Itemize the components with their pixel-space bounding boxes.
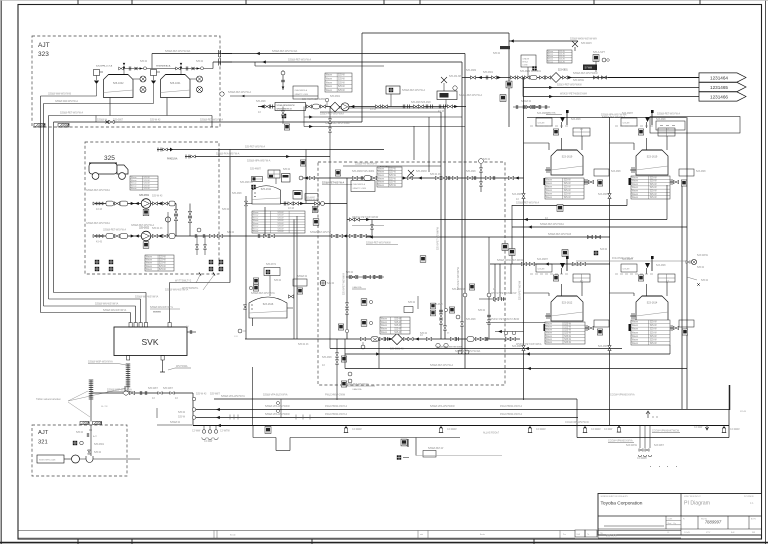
svg-text:525&8-VPA-BLSYWYA: 525&8-VPA-BLSYWYA: [263, 394, 288, 397]
svg-text:525-W: 525-W: [564, 326, 572, 328]
svg-text:525-W: 525-W: [159, 260, 167, 262]
svg-text:Wsvw: Wsvw: [378, 175, 384, 177]
svg-text:1:1: 1:1: [750, 501, 754, 505]
svg-text:325: 325: [104, 155, 115, 162]
svg-text:AJT: AJT: [93, 435, 98, 438]
svg-text:LOEM: LOEM: [523, 65, 528, 67]
svg-text:525-W: 525-W: [740, 411, 746, 413]
svg-text:525-W: 525-W: [650, 197, 658, 199]
svg-text:VWUY WUW WPLIT: VWUY WUW WPLIT: [684, 496, 701, 498]
svg-text:CJ-WW: CJ-WW: [204, 440, 213, 443]
svg-text:CJ-WW2: CJ-WW2: [536, 428, 546, 431]
svg-text:525-W: 525-W: [159, 256, 167, 258]
svg-text:525-W: 525-W: [277, 231, 283, 233]
svg-text:525&8-PET-WSYWKW: 525&8-PET-WSYWKW: [366, 242, 391, 245]
svg-text:525-W: 525-W: [650, 184, 658, 186]
svg-text:GRAVITY LOEM: GRAVITY LOEM: [353, 187, 367, 190]
svg-text:525-W: 525-W: [76, 431, 84, 434]
svg-text:525&Y-PET-WSYWKA: 525&Y-PET-WSYWKA: [320, 113, 344, 116]
svg-text:Wsvw: Wsvw: [253, 217, 259, 219]
svg-text:WWBRUKSVATTUN DRWLA WTL: WWBRUKSVATTUN DRWLA WTL: [601, 495, 629, 498]
svg-text:Wsvw: Wsvw: [548, 61, 554, 63]
svg-text:525-W: 525-W: [564, 187, 572, 189]
svg-text:Wsvw: Wsvw: [546, 183, 552, 185]
svg-text:FWLCHWW-CWYL2: FWLCHWW-CWYL2: [500, 413, 523, 416]
svg-text:KKKhTSPS web8: KKKhTSPS web8: [39, 460, 56, 462]
svg-text:525-1002: 525-1002: [113, 82, 124, 85]
svg-text:WSKSY-PET-WSKSYWA: WSKSY-PET-WSKSYWA: [560, 93, 587, 96]
svg-text:525-W 43: 525-W 43: [152, 227, 163, 230]
svg-text:523-4M8: 523-4M8: [656, 264, 666, 267]
svg-text:GRAVITY LOEM: GRAVITY LOEM: [295, 93, 309, 96]
svg-text:325&8-PET-WSYW-A: 325&8-PET-WSYW-A: [103, 229, 126, 232]
svg-text:525-4M8: 525-4M8: [466, 170, 476, 173]
svg-text:SYWM: SYWM: [585, 67, 592, 70]
svg-text:Wsvw: Wsvw: [546, 326, 552, 328]
svg-text:BvW: BvW: [731, 532, 735, 534]
svg-text:525-W: 525-W: [178, 411, 186, 414]
svg-text:Wsvw: Wsvw: [378, 185, 384, 187]
svg-text:525-W: 525-W: [483, 158, 491, 161]
svg-text:525&8-NPA-WSYW-A: 525&8-NPA-WSYW-A: [247, 160, 271, 163]
svg-text:525&8-PET-WSYW-A: 525&8-PET-WSYW-A: [288, 59, 311, 62]
svg-text:525&8-PET-WSYW-WA: 525&8-PET-WSYW-WA: [165, 50, 191, 53]
svg-text:525-W: 525-W: [94, 451, 102, 454]
svg-text:525-W: 525-W: [394, 318, 402, 320]
svg-text:525-W: 525-W: [338, 90, 346, 92]
svg-text:525-W: 525-W: [564, 336, 572, 338]
svg-text:CJ-WW2: CJ-WW2: [447, 428, 457, 431]
svg-text:525-W8T: 525-W8T: [148, 387, 158, 390]
svg-text:43 43: 43 43: [438, 110, 445, 113]
svg-text:TW: TW: [600, 533, 603, 535]
svg-text:525-8-PET-WSYWYW: 525-8-PET-WSYWYW: [458, 266, 460, 290]
svg-text:CJ-WW: CJ-WW: [192, 430, 201, 433]
svg-text:FOLCHWA-CWK-W: FOLCHWA-CWK-W: [612, 257, 634, 260]
svg-text:525-0801: 525-0801: [94, 443, 105, 446]
svg-text:325&8-PET-WSYWKA: 325&8-PET-WSYWKA: [86, 222, 110, 225]
svg-text:1231466: 1231466: [710, 94, 728, 99]
svg-text:SL-TN: SL-TN: [101, 406, 108, 408]
svg-text:525-W: 525-W: [394, 329, 402, 331]
svg-text:525-W: 525-W: [140, 60, 148, 63]
svg-text:525&8-WN-WSYWYA: 525&8-WN-WSYWYA: [135, 296, 159, 299]
svg-text:PI Diagram: PI Diagram: [684, 501, 710, 507]
svg-text:321: 321: [38, 440, 48, 446]
svg-text:525&8-WN-WSYWYA: 525&8-WN-WSYWYA: [103, 309, 127, 312]
svg-text:523-4M8T: 523-4M8T: [512, 193, 523, 196]
svg-text:Bevde: Bevde: [230, 535, 237, 537]
svg-text:525-W: 525-W: [394, 325, 402, 327]
svg-text:523-4M8: 523-4M8: [598, 193, 608, 196]
svg-text:525-8-PET-WSYWYA: 525-8-PET-WSYWYA: [343, 272, 346, 295]
svg-text:WSKSY-PET-WSYWKW: WSKSY-PET-WSYWKW: [352, 216, 379, 219]
svg-text:Wsvw: Wsvw: [632, 187, 638, 189]
svg-text:RvW: RvW: [577, 534, 581, 536]
svg-text:FWLCHWW-CWW: FWLCHWW-CWW: [325, 394, 346, 397]
svg-text:WSKSY-PET-WSYWKA: WSKSY-PET-WSYWKA: [516, 343, 542, 346]
svg-text:WSKSY-PET-WSKSY-BKW: WSKSY-PET-WSKSY-BKW: [490, 318, 520, 321]
svg-text:525-W: 525-W: [650, 191, 658, 193]
svg-text:BUTV: BUTV: [751, 519, 757, 521]
svg-text:Wsvw: Wsvw: [632, 191, 638, 193]
svg-text:525-W: 525-W: [338, 79, 346, 81]
svg-text:525-W: 525-W: [564, 323, 572, 325]
svg-text:525&8-PET-WSYW-A: 525&8-PET-WSYW-A: [516, 202, 539, 205]
svg-text:525&8-WN-WSYWYA: 525&8-WN-WSYWYA: [95, 303, 119, 306]
svg-text:1231464: 1231464: [710, 75, 728, 80]
svg-text:525-W: 525-W: [277, 228, 283, 230]
svg-text:Wsvw: Wsvw: [632, 322, 638, 324]
svg-text:525-W: 525-W: [408, 301, 416, 304]
svg-text:CJ-WW: CJ-WW: [694, 426, 703, 429]
svg-text:WSYWWA: WSYWWA: [176, 365, 188, 368]
svg-text:525-W: 525-W: [701, 279, 709, 282]
svg-text:525&Y-PET-WSYWKW: 525&Y-PET-WSYWKW: [557, 84, 582, 87]
svg-text:525&8-PET-WSYWKW: 525&8-PET-WSYWKW: [573, 72, 598, 75]
svg-text:525-NPM-LCT-B: 525-NPM-LCT-B: [96, 65, 113, 67]
svg-text:Wsvw: Wsvw: [632, 332, 638, 334]
svg-text:525-W: 525-W: [159, 266, 167, 268]
svg-text:525&8-PET-WSYW-WA: 525&8-PET-WSYW-WA: [272, 50, 298, 53]
svg-text:525-4M-NP3: 525-4M-NP3: [449, 75, 463, 78]
svg-text:525&8-VPA-WSYWKW: 525&8-VPA-WSYWKW: [430, 405, 455, 408]
svg-text:525-4M8 525-4M8: 525-4M8 525-4M8: [411, 101, 431, 104]
svg-text:325&8-PET-WSYWKA: 325&8-PET-WSYWKA: [86, 189, 110, 192]
svg-text:525-W8T: 525-W8T: [163, 387, 173, 390]
svg-text:Wsvw: Wsvw: [146, 256, 152, 258]
svg-text:FWLCHWW-CWYL2: FWLCHWW-CWYL2: [325, 405, 348, 408]
svg-text:525-W: 525-W: [277, 217, 283, 219]
svg-text:523-1619: 523-1619: [647, 156, 658, 159]
svg-text:Wsvw: Wsvw: [632, 325, 638, 327]
svg-text:525-4M8: 525-4M8: [466, 318, 476, 321]
svg-text:Wsvw: Wsvw: [131, 183, 137, 185]
svg-text:525-4MM 523-0801: 525-4MM 523-0801: [520, 70, 542, 73]
svg-text:CCGW-WN-WSYW-W: CCGW-WN-WSYW-W: [565, 421, 590, 424]
svg-text:Wsvw: Wsvw: [253, 231, 259, 233]
svg-text:AJT: AJT: [38, 42, 50, 49]
svg-text:CCGW-VPW-BSYWYA: CCGW-VPW-BSYWYA: [608, 440, 633, 443]
svg-text:Wsvw: Wsvw: [546, 342, 552, 344]
svg-text:525&8-PET-WSYWKA: 525&8-PET-WSYWKA: [540, 223, 564, 226]
svg-text:Wsvw: Wsvw: [131, 177, 137, 179]
svg-text:525-1001: 525-1001: [170, 82, 181, 85]
svg-text:525-W: 525-W: [650, 325, 658, 327]
svg-text:525&8-PET-WSYW-A: 525&8-PET-WSYW-A: [200, 118, 223, 121]
svg-text:525-W: 525-W: [564, 330, 572, 332]
svg-text:523-0801: 523-0801: [558, 70, 568, 72]
svg-text:Wsvw: Wsvw: [381, 325, 387, 327]
svg-text:Wsvw: Wsvw: [326, 86, 332, 88]
svg-text:525-W: 525-W: [283, 168, 291, 171]
svg-text:43 43: 43 43: [96, 208, 103, 211]
svg-text:Wsvw: Wsvw: [632, 181, 638, 183]
svg-text:Wsvw: Wsvw: [546, 197, 552, 199]
svg-text:525&8-WKW-WSYW-WA: 525&8-WKW-WSYW-WA: [570, 38, 597, 41]
svg-text:525-0871: 525-0871: [266, 263, 277, 266]
svg-text:525-W: 525-W: [564, 194, 572, 196]
svg-text:SVK: SVK: [141, 337, 158, 347]
svg-text:Wsvw: Wsvw: [326, 75, 332, 77]
svg-text:wde: wde: [420, 534, 423, 536]
svg-text:525-W: 525-W: [650, 343, 658, 345]
svg-text:Pve: Pve: [563, 534, 566, 536]
svg-text:Wsvw: Wsvw: [632, 177, 638, 179]
svg-text:525-W: 525-W: [277, 223, 283, 225]
svg-text:Wsvw: Wsvw: [253, 212, 259, 214]
svg-text:2004-8-8: 2004-8-8: [606, 534, 617, 538]
svg-text:525-0801: 525-0801: [483, 71, 494, 74]
svg-text:Wsvw: Wsvw: [131, 185, 137, 187]
svg-text:525&8-PET-WSYW: 525&8-PET-WSYW: [310, 231, 331, 234]
svg-text:523-1612: 523-1612: [562, 302, 573, 305]
svg-text:525-PET-WSYW-A: 525-PET-WSYW-A: [245, 146, 266, 149]
svg-text:Wsvw: Wsvw: [146, 266, 152, 268]
svg-text:CHALIWERK-A: CHALIWERK-A: [295, 89, 308, 92]
svg-text:Tähän valueist arteiden: Tähän valueist arteiden: [36, 398, 62, 401]
svg-text:525-W: 525-W: [389, 172, 397, 174]
svg-text:523-4M: 523-4M: [538, 123, 545, 125]
svg-text:525-W: 525-W: [389, 185, 397, 187]
svg-text:525&8-PET-WSYW-A: 525&8-PET-WSYW-A: [459, 94, 482, 97]
svg-text:CHALIW: CHALIW: [523, 58, 530, 61]
svg-text:525-W: 525-W: [159, 269, 167, 271]
svg-text:525-W: 525-W: [650, 336, 658, 338]
svg-text:525&8-PN-WSYW-A: 525&8-PN-WSYW-A: [355, 163, 377, 166]
svg-text:525&8-PET-WSYW-A: 525&8-PET-WSYW-A: [228, 91, 251, 94]
svg-text:525-4M8: 525-4M8: [322, 356, 332, 359]
svg-text:525-W: 525-W: [559, 61, 565, 63]
svg-text:Wsvw: Wsvw: [632, 336, 638, 338]
svg-text:Wsvw: Wsvw: [253, 223, 259, 225]
svg-text:525&8-WKW-PET-WKW: 525&8-WKW-PET-WKW: [497, 259, 524, 262]
svg-text:525&8-PET-WSYW-B: 525&8-PET-WSYW-B: [548, 233, 571, 236]
svg-text:ERK-A: ERK-A: [523, 61, 529, 64]
svg-text:525-W 43: 525-W 43: [430, 173, 441, 176]
svg-text:Wsvw: Wsvw: [546, 333, 552, 335]
svg-text:525-W: 525-W: [389, 182, 397, 184]
svg-text:CJ-WW8: CJ-WW8: [637, 457, 647, 460]
svg-text:525-W: 525-W: [564, 190, 572, 192]
svg-text:Wsvw: Wsvw: [632, 343, 638, 345]
svg-text:525-W: 525-W: [564, 339, 572, 341]
svg-text:525-W: 525-W: [338, 75, 346, 77]
svg-text:525-W: 525-W: [227, 231, 235, 234]
svg-text:Wsvw: Wsvw: [546, 336, 552, 338]
svg-text:O/y: O/y: [673, 523, 676, 525]
svg-text:525-4M8T: 525-4M8T: [306, 197, 316, 199]
svg-text:525-W: 525-W: [650, 187, 658, 189]
svg-text:CLOvW: CLOvW: [684, 532, 690, 534]
svg-text:525-W: 525-W: [394, 322, 402, 324]
svg-text:525&8-WN-WSYWYL: 525&8-WN-WSYWYL: [150, 306, 174, 309]
svg-text:525-4M8T: 525-4M8T: [250, 168, 261, 171]
svg-text:525&8-PKA-WSYW-A: 525&8-PKA-WSYW-A: [216, 153, 240, 156]
svg-text:525-W: 525-W: [159, 263, 167, 265]
svg-text:525-W: 525-W: [564, 183, 572, 185]
svg-text:523-WKW: 523-WKW: [626, 444, 638, 447]
svg-text:525&8-PET-WSYW-A: 525&8-PET-WSYW-A: [657, 113, 680, 116]
svg-text:525-WW3: 525-WW3: [581, 42, 592, 45]
svg-text:525-0801: 525-0801: [330, 95, 341, 98]
svg-text:525-4MM: 525-4MM: [466, 69, 476, 72]
svg-text:Wsvw: Wsvw: [378, 182, 384, 184]
svg-text:43 43: 43 43: [96, 241, 103, 244]
svg-text:Wsvw: Wsvw: [326, 90, 332, 92]
svg-text:523-4M8: 523-4M8: [656, 118, 666, 121]
svg-text:Tlv: Tlv: [587, 534, 589, 536]
svg-text:FWLCHWW-CWYL2: FWLCHWW-CWYL2: [325, 413, 348, 416]
svg-text:523-4M8T: 523-4M8T: [622, 112, 633, 115]
svg-text:525-W: 525-W: [394, 332, 402, 334]
svg-text:525-W: 525-W: [650, 181, 658, 183]
svg-text:525&8-PET-WSYW-A: 525&8-PET-WSYW-A: [60, 112, 83, 115]
svg-text:523-4M: 523-4M: [623, 123, 630, 125]
svg-text:525-W: 525-W: [650, 322, 658, 324]
svg-text:325-0651: 325-0651: [139, 194, 150, 197]
svg-text:525&8-W: 525&8-W: [170, 421, 181, 424]
svg-text:525-W: 525-W: [222, 208, 230, 211]
svg-text:Wsvw: Wsvw: [632, 197, 638, 199]
svg-text:Wsvw: Wsvw: [381, 332, 387, 334]
svg-text:525&8-PET-WSYW-A: 525&8-PET-WSYW-A: [402, 89, 425, 92]
svg-text:525-W: 525-W: [277, 226, 283, 228]
svg-text:525-W: 525-W: [564, 197, 572, 199]
svg-text:525-WSW: 525-WSW: [573, 79, 585, 82]
svg-text:Wsvw: Wsvw: [546, 330, 552, 332]
svg-text:CAAKWA: CAAKWA: [352, 388, 362, 391]
svg-text:Wsvw: Wsvw: [546, 187, 552, 189]
svg-text:525-W 43: 525-W 43: [152, 195, 163, 198]
svg-text:43 43: 43 43: [288, 207, 295, 210]
svg-text:525-W: 525-W: [178, 416, 186, 419]
svg-text:525&8-PET-WSYWYA: 525&8-PET-WSYWYA: [251, 292, 275, 295]
svg-text:WSBNMKACA: WSBNMKACA: [156, 64, 171, 67]
svg-text:WT WWKW: WT WWKW: [744, 496, 754, 498]
svg-text:525-A-NPT: 525-A-NPT: [593, 51, 605, 54]
svg-text:525-4M8T 525-4M8M: 525-4M8T 525-4M8M: [302, 98, 325, 101]
svg-text:325&8-WW-WSYW-B: 325&8-WW-WSYW-B: [48, 93, 71, 96]
svg-text:525-4M8: 525-4M8: [232, 192, 242, 195]
svg-text:PAKELNA: PAKELNA: [167, 158, 178, 161]
svg-text:525-W: 525-W: [650, 329, 658, 331]
svg-text:Wsvw: Wsvw: [632, 194, 638, 196]
svg-text:525&8-W: 525&8-W: [297, 275, 308, 278]
svg-text:523-W: 523-W: [600, 248, 608, 251]
svg-text:525-W 43: 525-W 43: [150, 118, 161, 121]
svg-text:WYTTSWWTIL: WYTTSWWTIL: [182, 287, 199, 290]
svg-text:CAAKWA: CAAKWA: [352, 286, 362, 289]
svg-text:525-W: 525-W: [650, 194, 658, 196]
svg-text:523-4M8: 523-4M8: [598, 345, 608, 348]
svg-text:525&8-WSP-WSYWYA: 525&8-WSP-WSYWYA: [107, 389, 132, 392]
svg-text:525-W: 525-W: [650, 332, 658, 334]
svg-text:525-W: 525-W: [389, 178, 397, 180]
svg-text:525-W: 525-W: [564, 180, 572, 182]
svg-text:Wsvw: Wsvw: [546, 180, 552, 182]
svg-text:323: 323: [38, 51, 49, 58]
svg-text:FWLCHWW-CWYL2: FWLCHWW-CWYL2: [500, 405, 523, 408]
svg-text:7889997: 7889997: [705, 520, 722, 525]
svg-text:Wsvw: Wsvw: [378, 168, 384, 170]
svg-text:525-W: 525-W: [274, 279, 282, 282]
svg-text:525-W: 525-W: [143, 183, 149, 185]
svg-text:525-W: 525-W: [143, 177, 149, 179]
svg-text:CJ-WW2: CJ-WW2: [352, 428, 362, 431]
svg-text:525&8-VPA-WSYWKW: 525&8-VPA-WSYWKW: [265, 413, 290, 416]
svg-text:CJ-WW: CJ-WW: [604, 428, 613, 431]
svg-text:523-4M: 523-4M: [538, 269, 545, 271]
svg-text:525-W: 525-W: [478, 309, 486, 312]
svg-text:525&8-WSP-WSYWYA: 525&8-WSP-WSYWYA: [88, 361, 113, 364]
svg-text:ALLAS ROOv7: ALLAS ROOv7: [483, 432, 500, 435]
svg-text:Wsvw: Wsvw: [381, 322, 387, 324]
svg-text:Wsvw: Wsvw: [378, 172, 384, 174]
svg-text:523-1614: 523-1614: [647, 302, 658, 305]
svg-text:525-W: 525-W: [697, 266, 705, 269]
svg-text:525-W: 525-W: [650, 177, 658, 179]
svg-text:525&8-W: 525&8-W: [521, 100, 532, 103]
svg-text:525-0807: 525-0807: [113, 118, 124, 121]
svg-text:525&8-PET-WSYW-A: 525&8-PET-WSYW-A: [430, 364, 453, 367]
svg-text:Wsvw: Wsvw: [131, 188, 137, 190]
svg-text:Wsvw: Wsvw: [253, 226, 259, 228]
svg-text:Bevde: Bevde: [480, 534, 485, 536]
svg-text:525-W8T: 525-W8T: [210, 393, 220, 396]
svg-text:WWWB: WWWB: [153, 312, 161, 314]
svg-text:525&8-PET-W: 525&8-PET-W: [428, 447, 444, 450]
svg-text:Wsvw: Wsvw: [381, 329, 387, 331]
svg-text:525-W: 525-W: [338, 82, 346, 84]
svg-text:523-1616: 523-1616: [263, 303, 274, 306]
svg-text:523-WKW: 523-WKW: [697, 254, 709, 257]
svg-text:WSKSYWKW 43: WSKSYWKW 43: [277, 109, 293, 111]
svg-text:525-W 43: 525-W 43: [298, 343, 309, 346]
svg-text:Wsvw: Wsvw: [381, 318, 387, 320]
svg-text:WW: WW: [752, 532, 756, 534]
svg-text:Wsvw: Wsvw: [131, 180, 137, 182]
svg-text:525-W: 525-W: [389, 175, 397, 177]
svg-text:AJT: AJT: [38, 430, 49, 436]
svg-text:525&8-NPM-WSYW: 525&8-NPM-WSYW: [277, 105, 295, 107]
svg-text:525-W: 525-W: [564, 333, 572, 335]
svg-text:Wsvw: Wsvw: [546, 190, 552, 192]
svg-text:525&8-PET-WSYWYA: 525&8-PET-WSYWYA: [345, 383, 369, 386]
svg-text:Wsvw: Wsvw: [378, 178, 384, 180]
svg-text:Wwd: Wwd: [668, 523, 672, 525]
svg-text:CCGW-VPW-BSYWYA: CCGW-VPW-BSYWYA: [610, 394, 635, 397]
svg-text:525-W: 525-W: [277, 212, 283, 214]
svg-text:Wsvw: Wsvw: [632, 339, 638, 341]
svg-text:525-8-PET-WSYW: 525-8-PET-WSYW: [520, 280, 522, 300]
svg-text:525&8-VPA-WSYWKW: 525&8-VPA-WSYWKW: [265, 405, 290, 408]
svg-text:Wsvw: Wsvw: [632, 184, 638, 186]
svg-text:525-4M83: 525-4M83: [416, 170, 427, 173]
svg-text:Wsvw: Wsvw: [146, 269, 152, 271]
svg-text:523-4M8: 523-4M8: [696, 170, 706, 173]
svg-text:525-4M83 525-4M84: 525-4M83 525-4M84: [352, 170, 375, 173]
svg-text:525-W 43: 525-W 43: [196, 393, 207, 396]
svg-text:Wsvw: Wsvw: [146, 260, 152, 262]
svg-text:525&8-PET-WSYW-A: 525&8-PET-WSYW-A: [322, 182, 345, 185]
svg-text:325&8-PET-WSYW-A: 325&8-PET-WSYW-A: [131, 224, 154, 227]
svg-text:Toyoba Corporation: Toyoba Corporation: [601, 501, 643, 507]
svg-text:523-4M8: 523-4M8: [571, 264, 581, 267]
svg-text:523-W8T: 523-W8T: [654, 444, 664, 447]
svg-text:Wsvw: Wsvw: [326, 82, 332, 84]
svg-text:CJ-WTW: CJ-WTW: [220, 430, 230, 433]
